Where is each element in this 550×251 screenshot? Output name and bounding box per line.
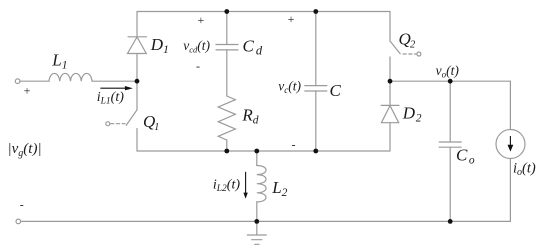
- svg-text:iL2(t): iL2(t): [213, 178, 240, 195]
- svg-text:vo(t): vo(t): [436, 63, 460, 79]
- svg-text:L1: L1: [51, 51, 67, 72]
- svg-text:+: +: [197, 13, 205, 27]
- svg-text:+: +: [23, 84, 31, 98]
- svg-text:vc(t): vc(t): [278, 79, 301, 95]
- svg-text:Q2: Q2: [399, 30, 416, 51]
- svg-text:+: +: [287, 12, 295, 26]
- svg-text:io(t): io(t): [513, 160, 536, 178]
- svg-text:|vg(t)|: |vg(t)|: [8, 141, 42, 159]
- svg-text:Rd: Rd: [241, 106, 258, 127]
- svg-text:D2: D2: [402, 104, 422, 125]
- svg-text:Cd: Cd: [243, 37, 263, 58]
- svg-text:L2: L2: [271, 178, 287, 199]
- svg-text:vcd(t): vcd(t): [183, 38, 210, 54]
- svg-text:-: -: [196, 59, 200, 73]
- svg-text:D1: D1: [150, 35, 169, 56]
- svg-text:iL1(t): iL1(t): [97, 90, 124, 107]
- svg-text:Co: Co: [456, 146, 475, 167]
- svg-text:-: -: [20, 197, 24, 211]
- svg-text:Q1: Q1: [143, 112, 159, 133]
- svg-text:-: -: [292, 137, 296, 151]
- svg-text:C: C: [330, 81, 342, 100]
